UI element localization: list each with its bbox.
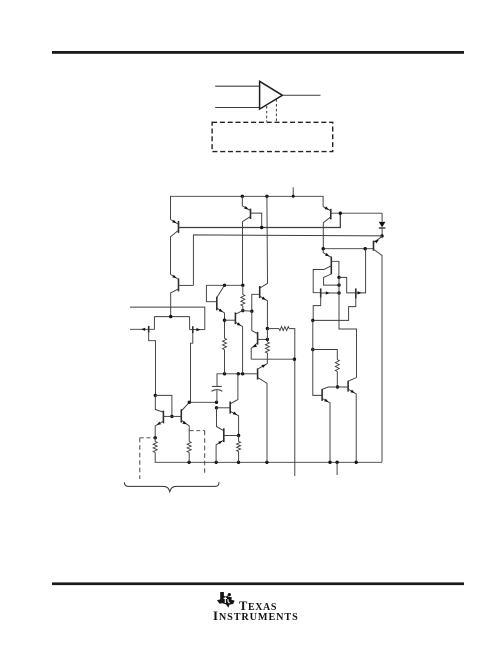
footer TEXAS INSTRUMENTS wordmark: [239, 599, 277, 614]
transistor Q20 collector: [217, 408, 224, 431]
transistor Q20 emitter: [216, 440, 223, 462]
node Q13-base dot: [266, 338, 269, 341]
node mirror-top dot: [154, 394, 157, 397]
wire bias line: [193, 235, 382, 286]
wire IN+ line: [130, 328, 149, 330]
transistor Q2 bar: [250, 209, 252, 219]
resistor R3: [223, 338, 227, 349]
node mirror-base dot: [170, 415, 173, 418]
wire R4 top: [266, 329, 268, 342]
transistor Q16 emitter: [236, 322, 243, 373]
transistor Q14 lower lead: [258, 378, 267, 463]
node N312-b dot: [311, 348, 314, 351]
op-amp U1 input wire (inverting): [215, 107, 259, 109]
transistor Q15 collector: [217, 285, 224, 297]
VCC pin stub: [292, 187, 294, 196]
capacitor C1 top plate: [212, 385, 222, 387]
wire mirror-cap link: [189, 401, 216, 403]
jfet Q11 bar: [355, 288, 357, 298]
transistor Q16 base: [225, 319, 236, 321]
dashed block box: [212, 122, 333, 151]
dashed lead right to block: [275, 99, 277, 122]
jfet J2 source path: [191, 333, 193, 402]
node Q17-emitter dot: [154, 436, 157, 439]
resistor R7: [335, 360, 339, 372]
wire VEE bottom rail: [155, 453, 382, 463]
node N339-a dot: [337, 276, 340, 279]
transistor Q14 bar: [257, 368, 259, 379]
transistor Q1 collector: [171, 231, 179, 275]
transistor Q8 bar: [321, 389, 323, 401]
transistor Q2 base: [251, 213, 262, 227]
transistor Q4 bar: [178, 278, 180, 291]
diode D1 cathode wire: [381, 228, 383, 236]
wire R7 bottom: [336, 372, 338, 388]
jfet J2 drain link: [189, 317, 191, 330]
node Q15-emitter dot: [223, 319, 226, 322]
transistor Q4 emitter: [171, 274, 179, 279]
transistor Q13 bar: [257, 332, 259, 345]
node Q12-emitter dot: [266, 327, 269, 330]
transistor Q6 collector: [324, 274, 339, 285]
jfet J2 gate lead: [193, 329, 205, 331]
jfet Q10 source path: [313, 298, 321, 321]
node Q18-collector dot: [188, 401, 191, 404]
transistor Q1 emitter: [171, 220, 179, 225]
transistor Q14 base: [243, 373, 258, 375]
wire comp node: [217, 374, 243, 387]
op-amp U1 output wire: [282, 94, 320, 96]
jfet J1 gate arrow: [141, 328, 145, 331]
jfet J1 drain link: [149, 317, 155, 330]
node rail-A dot: [241, 195, 244, 198]
transistor Q16 collector: [236, 311, 243, 314]
transistor Q2 emitter: [242, 196, 250, 210]
resistor R6: [241, 295, 245, 307]
diode D1 cathode bar: [379, 227, 386, 229]
wire R5 left: [267, 328, 279, 330]
node Q2 base-bias dot: [260, 226, 263, 229]
jfet Q10 gate arrow: [326, 291, 330, 294]
wire mid column: [313, 320, 322, 395]
transistor Q1 bar: [178, 221, 180, 233]
wire y359 link: [251, 358, 294, 360]
jfet J1 source path: [149, 333, 156, 396]
transistor Q5 base: [331, 261, 339, 277]
dashed lead left to block: [266, 106, 268, 122]
top rule: [52, 51, 464, 54]
transistor Q13 collector: [252, 311, 257, 333]
transistor Q19 collector: [231, 374, 238, 404]
transistor Q20 base: [224, 435, 239, 437]
wire R8 top: [238, 436, 240, 442]
jfet J2 bar: [192, 326, 194, 333]
capacitor C1 bottom lead: [216, 390, 218, 402]
node rail-C dot: [292, 195, 295, 198]
capacitor C1 bottom plate: [212, 390, 223, 392]
transistor Q15 base: [206, 301, 216, 303]
node Q7-base-left dot: [322, 247, 325, 250]
resistor R2: [187, 442, 191, 453]
wire R1 top: [154, 438, 156, 442]
transistor Q18 collector: [182, 402, 190, 410]
wire R3 bottom: [224, 350, 226, 374]
jfet J2 gate arrow: [196, 328, 200, 331]
transistor Q4 base: [179, 284, 194, 286]
transistor Q7 collector: [374, 249, 383, 462]
transistor Q15 bar: [216, 297, 218, 311]
wire VCC top rail: [171, 196, 324, 219]
wire node column: [339, 277, 357, 377]
transistor Q15 emitter: [217, 308, 224, 320]
wire mirror top link: [155, 395, 172, 416]
diode D1 triangle: [379, 222, 386, 227]
jfet Q11 source path: [313, 299, 356, 321]
dashed null N2 horizontal: [190, 430, 205, 432]
node rail dots: [187, 461, 190, 464]
transistor Q5 emitter: [323, 249, 331, 258]
TI Texas-map logo: [217, 592, 235, 608]
transistor Q8 emitter: [323, 399, 330, 463]
node Q19-emitter dot: [237, 434, 240, 437]
transistor Q20 bar: [223, 428, 225, 442]
resistor R6 top wire: [242, 285, 244, 294]
jfet Q10 gate lead: [321, 292, 339, 294]
transistor Q9 emitter: [349, 389, 357, 462]
jfet Q11 gate lead: [356, 249, 366, 293]
transistor Q13 emitter: [251, 343, 257, 359]
transistor Q17 base: [163, 415, 172, 417]
resistor R1: [153, 442, 157, 453]
transistor Q16 bar: [234, 312, 236, 324]
node Q13 dots: [250, 310, 253, 313]
transistor Q12 emitter: [260, 296, 267, 328]
wire y285 line: [206, 285, 242, 301]
transistor Q17 collector: [155, 395, 163, 412]
jfet Q11 drain path: [339, 277, 356, 293]
node Q3 base dot: [339, 212, 342, 215]
transistor Q7 bar: [373, 241, 375, 251]
transistor Q14 upper lead: [258, 359, 267, 369]
footer rule: [52, 582, 464, 585]
dashed null N2 vertical: [204, 431, 206, 476]
node N312-a dot: [311, 319, 314, 322]
transistor Q5 Q6 bar: [330, 257, 332, 275]
transistor Q12 base: [252, 294, 260, 311]
transistor Q7 emitter: [374, 237, 383, 243]
brace under null section: [125, 482, 219, 491]
transistor Q3 base: [331, 212, 382, 214]
transistor Q19 base: [217, 407, 231, 409]
transistor Q17 emitter: [155, 421, 163, 437]
node Q7-base-mid dot: [364, 247, 367, 250]
transistor Q12 bar: [259, 286, 261, 298]
jfet Q10 bar: [320, 288, 322, 297]
node y285 dots: [223, 284, 226, 287]
resistor R5: [279, 327, 289, 331]
node D1-K dot: [380, 234, 383, 237]
transistor Q9 bar: [347, 381, 349, 392]
transistor Q8 collector: [322, 387, 348, 389]
transistor Q19 bar: [229, 402, 231, 414]
node drain-bus dot: [169, 315, 172, 318]
wire R4 bottom: [266, 353, 268, 359]
transistor Q1 base wire (thick): [179, 213, 341, 227]
VEE pin stub: [336, 462, 338, 475]
wire R3 top: [224, 320, 226, 338]
transistor Q18 bar: [180, 409, 182, 422]
node out-column dot: [293, 358, 296, 361]
transistor Q18 emitter: [182, 421, 189, 442]
node cap-node dots: [215, 401, 218, 404]
wire IN- line: [130, 307, 205, 330]
wire base link: [243, 310, 252, 313]
jfet Q11 gate arrow: [358, 291, 362, 294]
transistor Q3 bar: [330, 209, 332, 220]
dashed null N1 horizontal: [140, 437, 155, 439]
transistor Q3 collector: [323, 217, 330, 249]
op-amp U1 triangle: [260, 81, 283, 109]
wire Q7 base line: [323, 248, 373, 250]
diode D1 anode wire: [381, 213, 383, 222]
transistor Q5 collector: [313, 266, 331, 293]
op-amp U1 input wire (noninverting): [215, 85, 259, 87]
wire Q12 collector line: [260, 196, 268, 288]
transistor Q3 emitter: [323, 207, 330, 211]
transistor Q17 bar: [162, 411, 164, 424]
dashed null N1 vertical: [139, 438, 141, 479]
transistor Q2 collector: [243, 217, 251, 285]
node R7-Qa dot: [336, 385, 339, 388]
jfet J2 drain link2: [190, 329, 193, 331]
node rail-B dot: [265, 195, 268, 198]
wire R7 branch: [313, 350, 338, 360]
jfet J1 bar: [148, 326, 150, 333]
transistor Q13 base: [258, 338, 268, 340]
transistor Q19 emitter: [231, 412, 239, 436]
transistor Q9 collector: [348, 378, 356, 382]
transistor Q18 base: [172, 415, 181, 417]
wire drain bus: [154, 316, 189, 318]
wire R2 bottom: [188, 453, 190, 463]
wire R5 right to out column: [289, 329, 295, 476]
resistor R8: [237, 442, 241, 452]
node comp dots: [223, 372, 226, 375]
resistor R6 bottom wire: [242, 306, 244, 311]
wire R8 bottom: [238, 452, 240, 463]
node N339-c dot: [337, 291, 340, 294]
transistor Q4 collector: [171, 289, 178, 316]
resistor R4: [265, 342, 269, 353]
node N339-b dot: [337, 283, 340, 286]
